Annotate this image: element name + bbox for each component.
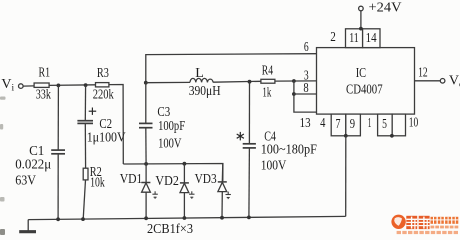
- capacitor C4: [243, 82, 256, 218]
- svg-text:4: 4: [320, 116, 325, 131]
- pin box 9: [346, 114, 361, 136]
- pin box 7: [331, 114, 346, 136]
- svg-text:220k: 220k: [93, 87, 114, 102]
- node junction VD2: [183, 162, 187, 166]
- node bottom C1: [56, 217, 60, 221]
- node Vi input terminal: [19, 84, 35, 89]
- IC U1 CD4007: [317, 48, 415, 115]
- resistor R4: [261, 79, 275, 83]
- svg-text:+24V: +24V: [369, 1, 402, 16]
- svg-text:IC: IC: [356, 66, 366, 81]
- ground: [19, 220, 36, 232]
- wire diode rail: [123, 164, 223, 182]
- node bottom VD2: [183, 216, 187, 220]
- wire L line left: [146, 81, 190, 83]
- wire R3 to corner down: [109, 85, 123, 165]
- capacitor C1: [51, 85, 65, 219]
- svg-text:100pF: 100pF: [158, 119, 185, 134]
- node bottom R2: [81, 217, 85, 221]
- node junction VD1: [144, 162, 148, 166]
- svg-text:Vi: Vi: [1, 77, 14, 94]
- inductor L: [190, 78, 213, 82]
- svg-text:R4: R4: [262, 63, 273, 78]
- resistor R1: [34, 83, 49, 87]
- svg-text:2CB1f×3: 2CB1f×3: [147, 222, 193, 235]
- resistor R3: [96, 83, 109, 87]
- svg-text:100V: 100V: [261, 158, 287, 173]
- node junction pin5/10: [390, 134, 394, 138]
- watermark logo: [391, 215, 458, 234]
- svg-text:C3: C3: [157, 105, 170, 120]
- varactor mark VD1: [152, 191, 157, 199]
- svg-text:1k: 1k: [262, 86, 271, 101]
- label C2 plus: [89, 108, 97, 115]
- svg-text:5: 5: [382, 117, 387, 132]
- svg-text:0.022μ: 0.022μ: [15, 157, 51, 172]
- svg-text:CD4007: CD4007: [346, 83, 383, 98]
- svg-text:63V: 63V: [15, 173, 36, 188]
- node junction C1: [57, 84, 61, 88]
- wire bottom rail: [28, 216, 346, 219]
- svg-text:VD1: VD1: [120, 172, 143, 187]
- node junction pin3/8: [292, 79, 296, 83]
- node junction pin8: [292, 92, 296, 96]
- node junction supply: [359, 27, 363, 31]
- svg-text:11: 11: [349, 31, 359, 46]
- svg-text:9: 9: [350, 117, 355, 132]
- wire +24V supply: [360, 11, 362, 29]
- varactor mark VD3: [226, 192, 231, 200]
- node bottom C4: [247, 216, 251, 220]
- svg-text:R1: R1: [39, 65, 51, 80]
- svg-text:390μH: 390μH: [189, 84, 221, 99]
- svg-text:VD3: VD3: [195, 172, 217, 187]
- node bottom VD3: [220, 216, 224, 220]
- svg-text:10k: 10k: [90, 175, 105, 190]
- svg-text:14: 14: [366, 31, 377, 46]
- pin box 14: [363, 29, 380, 48]
- svg-text:1: 1: [368, 116, 372, 131]
- node Vo terminal: [440, 79, 445, 84]
- svg-text:100V: 100V: [158, 137, 181, 152]
- pin box unlabeled: [392, 114, 405, 136]
- wire pin 8 branch: [294, 81, 317, 112]
- svg-text:13: 13: [300, 116, 311, 131]
- node junction pin7/9: [344, 134, 348, 138]
- wire R1 to R3: [49, 84, 95, 87]
- diode VD3: [218, 164, 227, 218]
- svg-text:6: 6: [304, 40, 309, 55]
- node junction C2: [84, 83, 88, 87]
- node +24V terminal: [359, 6, 364, 11]
- label star: [237, 132, 244, 141]
- svg-text:33k: 33k: [36, 87, 51, 102]
- svg-text:1μ100V: 1μ100V: [87, 131, 126, 146]
- diode VD2: [180, 164, 189, 218]
- pin box 5: [378, 114, 393, 136]
- svg-text:7: 7: [336, 117, 341, 132]
- capacitor C3: [139, 83, 153, 164]
- diode VD1: [141, 164, 150, 218]
- svg-text:12: 12: [418, 65, 428, 80]
- varactor mark VD2: [189, 191, 194, 199]
- wire pin 12 to Vo: [415, 80, 441, 82]
- pin box 11: [346, 29, 363, 48]
- wire R4 to pin 3: [275, 80, 317, 82]
- svg-text:10: 10: [409, 116, 419, 131]
- node junction C4: [248, 80, 252, 84]
- svg-text:8: 8: [303, 81, 308, 96]
- wire pin 8: [294, 93, 317, 95]
- svg-text:100~180pF: 100~180pF: [261, 142, 317, 157]
- capacitor C2: [77, 85, 93, 168]
- svg-text:R3: R3: [97, 66, 109, 81]
- wire top rail to pin 6: [146, 54, 317, 83]
- resistor R2: [83, 168, 88, 219]
- svg-text:Vo: Vo: [449, 74, 460, 91]
- wire pin7/9 to ground rail: [345, 136, 347, 217]
- scan artifacts left edge: [0, 97, 6, 236]
- node bottom VD1: [144, 216, 148, 220]
- svg-text:L: L: [195, 66, 204, 81]
- svg-text:VD2: VD2: [155, 174, 179, 189]
- node junction L tap: [144, 81, 148, 85]
- wire L to R4: [213, 80, 261, 83]
- svg-text:2: 2: [330, 30, 336, 45]
